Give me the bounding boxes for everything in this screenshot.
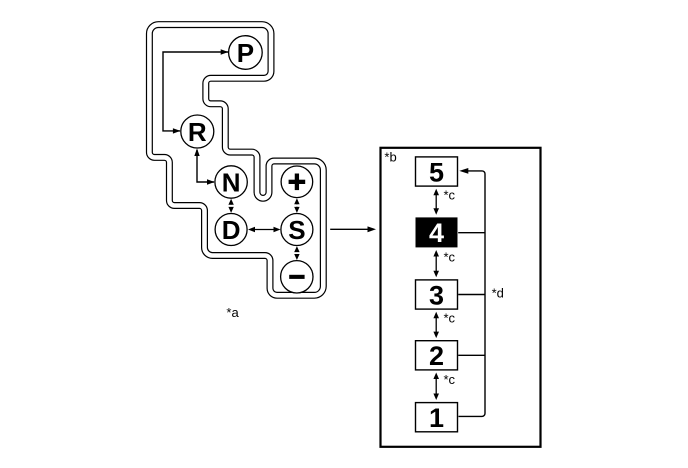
svg-text:3: 3 — [429, 280, 444, 310]
svg-text:*a: *a — [226, 305, 239, 320]
svg-text:*c: *c — [444, 311, 456, 326]
svg-text:*c: *c — [444, 249, 456, 264]
svg-text:S: S — [288, 215, 305, 245]
svg-text:P: P — [237, 38, 254, 68]
svg-text:N: N — [222, 167, 241, 197]
svg-text:*c: *c — [444, 188, 456, 203]
svg-text:D: D — [222, 215, 241, 245]
svg-text:4: 4 — [429, 218, 444, 248]
svg-text:2: 2 — [429, 341, 444, 371]
svg-text:*b: *b — [384, 150, 396, 165]
svg-text:5: 5 — [429, 157, 444, 187]
svg-text:R: R — [188, 117, 207, 147]
svg-text:*d: *d — [492, 286, 504, 301]
svg-text:*c: *c — [444, 372, 456, 387]
svg-text:1: 1 — [429, 403, 444, 433]
